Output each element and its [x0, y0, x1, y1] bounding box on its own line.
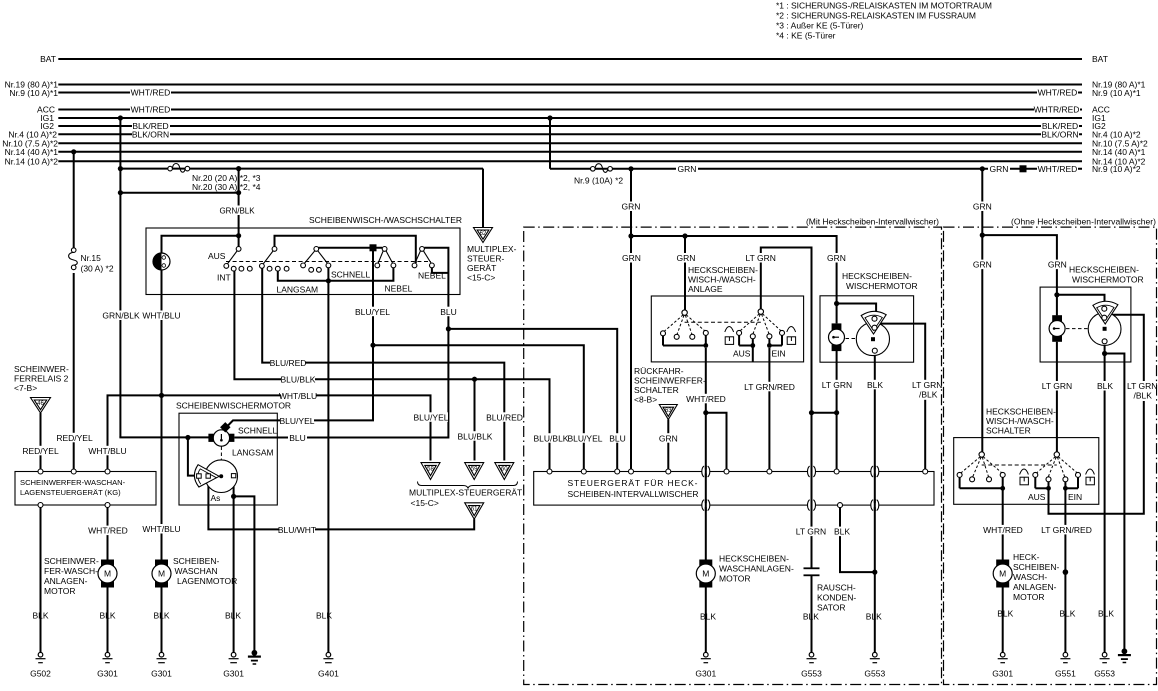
wire GRN triangle63 to terminal [667, 420, 669, 470]
wire IG1 bus [58, 117, 1082, 119]
wire KG to washermotor1 [107, 508, 109, 560]
wire capacitor to G553 [811, 576, 813, 653]
ground G301 c [229, 652, 239, 662]
label WHT/RED x107 [90, 526, 126, 536]
svg-text:(30 A) *2: (30 A) *2 [81, 264, 114, 274]
svg-text:G553: G553 [801, 669, 822, 679]
steuergeraet terminals [547, 469, 928, 508]
ground G553 capacitor [807, 652, 817, 662]
park disc Ohne [1088, 313, 1121, 346]
wire Nr.4 bus [58, 133, 1082, 135]
right fan Ohne [1036, 457, 1077, 478]
chassis ground Ohne [1118, 649, 1131, 663]
wire fuse Nr.9*2 feed [550, 168, 1082, 170]
rear switch box Mit [651, 296, 803, 362]
svg-text:WHT/RED: WHT/RED [131, 88, 171, 98]
wire BLK G502 [40, 508, 42, 653]
svg-text:BLU/YEL: BLU/YEL [568, 433, 603, 443]
svg-text:M: M [158, 569, 165, 579]
wire LT GRN motor to switch Ohne [1056, 342, 1058, 452]
svg-text:M: M [999, 569, 1006, 579]
label RED/YEL x74 [58, 433, 91, 443]
svg-text:Nr.20 (30 A) *2, *4: Nr.20 (30 A) *2, *4 [192, 182, 261, 192]
svg-text:RAUSCH-: RAUSCH- [817, 583, 856, 593]
svg-text:(Mit Heckscheiben-Intervallwis: (Mit Heckscheiben-Intervallwischer) [806, 217, 939, 227]
svg-text:SCHEIBEN-: SCHEIBEN- [1013, 562, 1059, 572]
BLK labels left column [32, 611, 332, 621]
wire GRN horizontal to motor Ohne [982, 235, 1057, 315]
park switch disc [205, 460, 238, 493]
svg-text:<8-B>: <8-B> [634, 395, 657, 405]
left fan Ohne [961, 457, 1002, 478]
junction dots Ohne [980, 233, 1107, 575]
svg-text:BLK: BLK [1097, 381, 1113, 391]
svg-text:KONDEN-: KONDEN- [817, 593, 856, 603]
label GRN x1057 [1046, 260, 1068, 270]
svg-text:HECKSCHEIBEN-: HECKSCHEIBEN- [1069, 265, 1139, 275]
wire multiplex 62 drop [482, 169, 484, 228]
svg-text:GERÄT: GERÄT [467, 263, 496, 273]
labels under horizontals [534, 433, 568, 443]
svg-text:WISCHERMOTOR: WISCHERMOTOR [846, 281, 918, 291]
svg-text:GRN: GRN [677, 253, 696, 263]
svg-text:LT GRN: LT GRN [796, 527, 826, 537]
wire colour labels on buses [130, 88, 1080, 174]
wire BLU/YEL switch to motor [228, 251, 374, 427]
svg-text:GRN: GRN [678, 164, 697, 174]
svg-text:/BLK: /BLK [1134, 391, 1153, 401]
svg-text:BLU/YEL: BLU/YEL [280, 416, 315, 426]
labels under motor Ohne [1042, 381, 1072, 391]
svg-text:SCHEIBEN-: SCHEIBEN- [173, 556, 219, 566]
svg-text:RED/YEL: RED/YEL [56, 433, 93, 443]
svg-text:ANLAGEN-: ANLAGEN- [44, 576, 88, 586]
switch inner top link [275, 236, 416, 263]
fuse Nr.15 symbol [69, 248, 78, 270]
wire WHT/BLU washer switch down [161, 270, 163, 560]
wire WHT/BLU horizontal y396 [108, 395, 431, 469]
svg-text:MOTOR: MOTOR [1013, 592, 1044, 602]
park dashed link Mit [846, 338, 872, 340]
wire fuse Nr.20 feed [120, 168, 483, 170]
svg-text:BLK: BLK [867, 380, 883, 390]
svg-text:BLK: BLK [99, 611, 115, 621]
svg-text:LAGENSTEUERGERÄT (KG): LAGENSTEUERGERÄT (KG) [20, 488, 121, 497]
junction dots Mit [628, 233, 877, 574]
wire wedge feed Mit [837, 304, 877, 312]
wire washer BLK to G301 Ohne [1002, 588, 1004, 653]
fuse Nr.9*2 symbol [591, 164, 613, 173]
svg-text:Nr.9 (10 A)*1: Nr.9 (10 A)*1 [9, 88, 58, 98]
svg-text:HECK-: HECK- [1013, 552, 1040, 562]
svg-text:SCHEINWER-: SCHEINWER- [14, 364, 69, 374]
wire Nr.14-40A bus [58, 151, 1082, 153]
svg-text:G301: G301 [992, 669, 1013, 679]
svg-text:RÜCKFAHR-: RÜCKFAHR- [634, 366, 684, 376]
label BLU/YEL online y420 [280, 416, 314, 426]
ground G301 rear washer [701, 652, 711, 662]
svg-text:SCHNELL: SCHNELL [238, 426, 277, 436]
svg-text:RED/YEL: RED/YEL [22, 446, 59, 456]
wire WHT/RED washer Ohne [1002, 488, 1004, 559]
switch moving arms [228, 251, 432, 264]
svg-text:WHT/RED: WHT/RED [131, 105, 171, 115]
label LT GRN/BLK [908, 380, 940, 400]
left fan washer contacts [664, 315, 705, 335]
wire WHT/RED branch terminal [706, 413, 727, 470]
Mit section dash-dot border [524, 227, 942, 684]
wiper switch box SCHEIBENWISCH-/WASCHSCHALTER [146, 228, 460, 295]
wire x238 fuse to switch [238, 169, 240, 247]
wire GRN/BLK into wiper motor [120, 436, 208, 437]
svg-text:SCHNELL: SCHNELL [331, 270, 370, 280]
svg-text:LT GRN: LT GRN [822, 380, 852, 390]
svg-text:BLK: BLK [866, 612, 882, 622]
wire LANGSAM link [278, 268, 449, 281]
label GRN x982 lower [971, 260, 993, 270]
wire ACC bus [58, 109, 1082, 111]
svg-text:GRN: GRN [1048, 260, 1067, 270]
washer switch symbol [153, 253, 170, 270]
wire wiper motor As to G301 [233, 478, 235, 652]
BLK labels Ohne [997, 609, 1114, 619]
svg-text:59: 59 [471, 466, 478, 472]
wire BLU branch to steuergeraet [448, 329, 617, 469]
KG steuergeraet box [15, 472, 156, 506]
wire Nr.14-10A bus [58, 160, 1082, 162]
svg-text:58: 58 [427, 466, 434, 472]
svg-text:SCHEIBENWISCH-/WASCHSCHALTER: SCHEIBENWISCH-/WASCHSCHALTER [309, 215, 462, 225]
svg-text:SCHEINWER-: SCHEINWER- [44, 556, 99, 566]
label GRN x836 [825, 253, 847, 263]
svg-text:G301: G301 [151, 669, 172, 679]
wire LT GRN/BLK park [878, 324, 925, 470]
ground G301 Ohne [998, 652, 1008, 662]
rear motor symbol Mit [829, 323, 845, 351]
label LT GRN/RED [746, 382, 793, 392]
detent symbols Mit [725, 327, 796, 345]
connector square on Nr.9*2 line [1020, 165, 1027, 172]
svg-text:HECKSCHEIBEN-: HECKSCHEIBEN- [986, 407, 1056, 417]
svg-text:BLU/BLK: BLU/BLK [534, 433, 569, 443]
detent symbols Ohne [1020, 469, 1095, 485]
svg-text:<15-C>: <15-C> [467, 273, 495, 283]
label GRN x631 lower [620, 253, 642, 263]
svg-text:61: 61 [471, 506, 478, 512]
svg-text:BLU/YEL: BLU/YEL [414, 412, 449, 422]
wire IG2 bus [58, 125, 1082, 127]
label RED/YEL x40 [24, 446, 57, 456]
label WHT/RED rear [687, 394, 725, 404]
wire BLU/RED from switch [262, 268, 504, 460]
wire BLU/BLK from switch [234, 271, 549, 469]
label BLK x874 [865, 380, 885, 390]
svg-text:LT GRN: LT GRN [1127, 381, 1157, 391]
svg-text:G301: G301 [97, 669, 118, 679]
svg-text:WHT/BLU: WHT/BLU [142, 311, 180, 321]
svg-text:BLU/WHT: BLU/WHT [278, 525, 316, 535]
svg-text:INT: INT [217, 273, 231, 283]
svg-text:60: 60 [501, 466, 508, 472]
wire motor brush feed drop [188, 438, 198, 476]
svg-text:WISCH-/WASCH-: WISCH-/WASCH- [688, 275, 756, 285]
triangle 46 relay source [31, 398, 51, 414]
svg-text:ANLAGEN-: ANLAGEN- [1013, 582, 1057, 592]
wire BLU/YEL branch to steuergeraet [373, 345, 584, 469]
svg-text:Nr.15: Nr.15 [81, 253, 102, 263]
svg-text:BLK: BLK [32, 611, 48, 621]
svg-text:G401: G401 [318, 669, 339, 679]
switch contact circles upper [236, 247, 424, 252]
ground G553 motor BLK [870, 652, 880, 662]
svg-text:WISCH-/WASCH-: WISCH-/WASCH- [986, 416, 1054, 426]
wire Nr.10 bus [58, 142, 1082, 144]
wire rear washer BLK to G301 [705, 588, 707, 653]
svg-text:ANLAGE: ANLAGE [688, 284, 723, 294]
wire triangle46 to KG [40, 413, 42, 469]
svg-text:GRN: GRN [827, 253, 846, 263]
svg-text:MULTIPLEX-STEUERGERÄT: MULTIPLEX-STEUERGERÄT [409, 488, 522, 498]
svg-text:WHT/RED: WHT/RED [686, 394, 726, 404]
left bus labels [2, 54, 58, 166]
svg-text:MOTOR: MOTOR [44, 586, 75, 596]
svg-text:WHT/BLU: WHT/BLU [279, 391, 317, 401]
svg-text:BLK: BLK [803, 612, 819, 622]
wire BLU switch to motor [234, 248, 448, 438]
label WHT/BLU x161 [144, 311, 179, 321]
svg-text:LANGSAM: LANGSAM [232, 448, 274, 458]
rear wiper motor box Mit [820, 296, 914, 362]
svg-text:FERRELAIS 2: FERRELAIS 2 [14, 374, 69, 384]
svg-text:GRN: GRN [622, 253, 641, 263]
svg-text:AUS: AUS [208, 251, 226, 261]
svg-text:BLK: BLK [225, 611, 241, 621]
svg-text:STEUERGERÄT FÜR HECK-: STEUERGERÄT FÜR HECK- [568, 478, 698, 488]
park switch wedge [194, 465, 219, 487]
svg-text:STEUER-: STEUER- [467, 254, 504, 264]
wire IG1 tap x120 [119, 118, 121, 194]
svg-text:BLU/BLK: BLU/BLK [458, 431, 493, 441]
svg-text:MULTIPLEX-: MULTIPLEX- [467, 244, 517, 254]
svg-text:GRN: GRN [659, 433, 678, 443]
svg-text:EIN: EIN [772, 349, 786, 359]
label LT GRN/RED Ohne [1043, 525, 1090, 535]
svg-text:SCHALTER: SCHALTER [634, 385, 679, 395]
junction dots rear switch [703, 343, 771, 348]
wire BLK park disc to G553 Ohne [1104, 344, 1106, 653]
label BLK x840 low [832, 527, 852, 537]
svg-text:<15-C>: <15-C> [411, 498, 439, 508]
label LT GRN x811 low [796, 527, 826, 537]
svg-text:BLU/RED: BLU/RED [270, 358, 307, 368]
svg-text:BLU: BLU [440, 307, 457, 317]
label BLU on vert448 [439, 307, 458, 317]
svg-text:G502: G502 [30, 669, 51, 679]
wire LT GRN switch link [761, 248, 812, 569]
label GRN/BLK top [223, 206, 251, 216]
svg-text:BLU: BLU [609, 433, 626, 443]
svg-text:GRN: GRN [990, 164, 1009, 174]
svg-text:SCHEIBENWISCHERMOTOR: SCHEIBENWISCHERMOTOR [176, 401, 291, 411]
svg-text:HECKSCHEIBEN-: HECKSCHEIBEN- [842, 271, 912, 281]
svg-text:BLK: BLK [997, 609, 1013, 619]
svg-text:WHT/BLU: WHT/BLU [142, 524, 180, 534]
svg-text:/BLK: /BLK [919, 389, 938, 399]
svg-text:BLU/RED: BLU/RED [486, 412, 523, 422]
svg-text:Nr.9 (10A) *2: Nr.9 (10A) *2 [574, 176, 623, 186]
label WHT/RED Ohne [984, 525, 1022, 535]
svg-text:WHT/BLU: WHT/BLU [88, 446, 126, 456]
wire LANGSAM to G401 [327, 281, 329, 653]
ground G551 Ohne [1060, 652, 1070, 662]
label LT GRN x836 [822, 380, 852, 390]
park disc Mit [856, 322, 889, 355]
label GRN x631 upper [620, 202, 642, 212]
junction dots rear switch Ohne [1000, 486, 1068, 491]
svg-text:BLK/ORN: BLK/ORN [132, 129, 169, 139]
svg-text:*1 : SICHERUNGS-/RELAISKASTEN: *1 : SICHERUNGS-/RELAISKASTEN IM MOTORTR… [776, 1, 992, 11]
svg-text:WHTR/RED: WHTR/RED [1034, 105, 1080, 115]
box edge break symbols [702, 466, 879, 512]
svg-text:M: M [104, 569, 111, 579]
wire BLK from steuergeraet bottom [840, 508, 875, 573]
ground G301 b [157, 652, 167, 662]
wire WHT/RED rear washer [705, 348, 707, 560]
wire GRN horizontal to rear motor [631, 236, 837, 323]
wire washer switch feed [162, 236, 239, 254]
svg-text:BLK: BLK [1059, 609, 1075, 619]
switch mech dashed Ohne [982, 464, 1057, 466]
svg-text:G301: G301 [223, 669, 244, 679]
svg-text:BLK: BLK [153, 611, 169, 621]
svg-text:G553: G553 [1094, 669, 1115, 679]
multiplex triangle 61 [465, 503, 484, 519]
multiplex triangle 62 [474, 228, 493, 243]
wire BLU/BLK triangle59 drop [474, 379, 476, 460]
svg-text:*2 : SICHERUNGS-RELAISKASTEN I: *2 : SICHERUNGS-RELAISKASTEN IM FUSSRAUM [776, 10, 976, 20]
svg-text:SCHALTER: SCHALTER [986, 426, 1031, 436]
wire NEBEL link [432, 268, 449, 273]
svg-text:BLK: BLK [316, 611, 332, 621]
wire wedge feed Ohne [1057, 295, 1105, 303]
KG terminals [38, 469, 110, 508]
svg-text:46: 46 [37, 401, 44, 407]
fuse Nr.20 symbol [168, 164, 190, 173]
svg-text:SCHEINWERFER-WASCHAN-: SCHEINWERFER-WASCHAN- [20, 478, 126, 487]
wire BAT bus [58, 58, 1082, 60]
wire As branch to chassis ground [234, 496, 255, 651]
BLK labels Mit bottom [700, 612, 882, 622]
wire GRN branch rear washer switch [684, 236, 686, 310]
wire LT GRN/RED EIN down [1064, 488, 1066, 652]
wiper motor symbol [208, 422, 234, 446]
label BLU/YEL on vert430 [414, 412, 448, 422]
svg-text:Nr.14 (10 A)*2: Nr.14 (10 A)*2 [5, 156, 59, 166]
svg-text:LT GRN: LT GRN [1042, 381, 1072, 391]
svg-text:63: 63 [665, 408, 672, 414]
label GRN x982 upper [971, 202, 993, 212]
svg-text:WASCH-: WASCH- [1013, 572, 1047, 582]
label WHT/BLU x161 low [144, 524, 179, 534]
svg-text:BLU/YEL: BLU/YEL [355, 307, 390, 317]
svg-text:HECKSCHEIBEN-: HECKSCHEIBEN- [688, 265, 758, 275]
rear wiper motor box Ohne [1040, 287, 1131, 362]
svg-text:LT GRN: LT GRN [746, 253, 776, 263]
svg-text:*4 : KE (5-Türer: *4 : KE (5-Türer [776, 30, 836, 40]
svg-text:BLK: BLK [1098, 609, 1114, 619]
wire Nr.20 30A parallel [120, 192, 238, 194]
washer motor 1 SCHEINWERFER-WASCHANLAGENMOTOR [98, 560, 117, 588]
wire GRN/BLK x120 IG1 down [119, 194, 121, 438]
svg-text:MOTOR: MOTOR [719, 574, 750, 584]
steuergeraet intervallwischer box [534, 472, 934, 506]
svg-text:GRN/BLK: GRN/BLK [102, 311, 140, 321]
svg-text:BAT: BAT [1092, 54, 1108, 64]
svg-text:WHT/RED: WHT/RED [88, 526, 128, 536]
wire BLU/WHT park to multiplex61 [208, 478, 474, 529]
wire RED/YEL x74 Nr.14-40A to KG box [73, 152, 75, 248]
wiper motor park cam dashed link [220, 447, 222, 475]
ground G401 [323, 652, 333, 662]
svg-text:Nr.9 (10 A)*1: Nr.9 (10 A)*1 [1092, 88, 1141, 98]
svg-text:<7-B>: <7-B> [14, 383, 37, 393]
label BLU/BLK on vert474 [458, 431, 492, 441]
svg-text:LT GRN: LT GRN [912, 380, 942, 390]
svg-text:*3 : Außer KE (5-Türer): *3 : Außer KE (5-Türer) [776, 21, 864, 31]
svg-text:M: M [702, 569, 709, 579]
rear washer motor Mit [696, 560, 715, 588]
park wedge Ohne [1093, 301, 1118, 324]
rear switch box Ohne [954, 438, 1099, 505]
svg-text:SCHEINWERFER-: SCHEINWERFER- [634, 376, 706, 386]
wire Nr.19 bus [58, 84, 1082, 86]
label LT GRN x761 [745, 253, 776, 263]
capacitor RAUSCH-KONDENSATOR [804, 568, 820, 575]
svg-text:SCHEIBEN-INTERVALLWISCHER: SCHEIBEN-INTERVALLWISCHER [568, 489, 699, 499]
wire BLK park disc down [874, 353, 876, 652]
label BLU online y437 [288, 433, 307, 443]
svg-text:BLK/ORN: BLK/ORN [1041, 129, 1078, 139]
svg-text:G551: G551 [1055, 669, 1076, 679]
label BLU/RED online [270, 358, 305, 368]
label GRN/BLK x120 [104, 311, 138, 321]
wire BLK washermotor2 to G301 [161, 588, 163, 653]
svg-text:SATOR: SATOR [817, 603, 846, 613]
svg-text:AUS: AUS [1028, 492, 1046, 502]
chassis ground As [248, 650, 261, 664]
wire LT GRN/RED to terminal [768, 348, 770, 469]
right fan switch contacts [740, 314, 781, 334]
junction dots top [71, 115, 1026, 195]
svg-text:BLK: BLK [834, 527, 850, 537]
ground G301 a [103, 652, 113, 662]
svg-text:AUS: AUS [733, 349, 751, 359]
svg-text:62: 62 [480, 231, 487, 237]
Ohne section dash-dot border [944, 227, 1157, 684]
svg-text:(Ohne Heckscheiben-Intervallwi: (Ohne Heckscheiben-Intervallwischer) [1011, 217, 1156, 227]
switch mech dashed line [226, 261, 431, 263]
svg-text:NEBEL: NEBEL [385, 284, 413, 294]
switch contact circles lower [224, 263, 434, 272]
label BLU/YEL on vert373 [356, 307, 390, 317]
svg-text:BLU/BLK: BLU/BLK [281, 375, 316, 385]
svg-text:LANGSAM: LANGSAM [277, 285, 319, 295]
ground G502 [36, 652, 46, 662]
label WHT/BLU online y396 [281, 391, 316, 401]
svg-text:As: As [211, 493, 221, 503]
svg-text:HECKSCHEIBEN-: HECKSCHEIBEN- [719, 554, 789, 564]
svg-text:GRN: GRN [973, 260, 992, 270]
